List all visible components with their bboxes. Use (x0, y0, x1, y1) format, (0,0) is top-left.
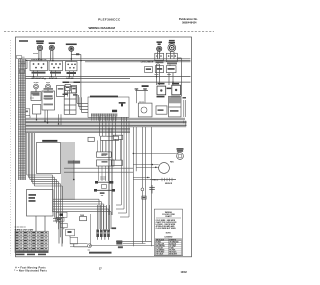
svg-text:GN GREEN: GN GREEN (156, 250, 164, 252)
small fuse component bottom left (80, 215, 87, 221)
junction dot (73, 179, 75, 181)
latch harness vertical wires (116, 121, 129, 217)
wire label smudge (68, 161, 81, 164)
svg-text:BU BLUE: BU BLUE (169, 243, 176, 245)
svg-text:xx xxx xxxx xx: xx xxx xxxx xx (15, 227, 26, 229)
interlock plug P6 (box) (56, 218, 65, 221)
svg-text:SURFACE UNIT CHART: SURFACE UNIT CHART (15, 228, 35, 231)
interlock plug P9 (box) (70, 237, 77, 244)
power cord text marks (44, 88, 54, 99)
relay drop continuation wires (103, 139, 116, 160)
small junction box mid-left (88, 137, 94, 141)
thermal fuse (symbol) (150, 178, 176, 185)
clock motor (box) (157, 83, 166, 98)
connector pin label row (91, 113, 118, 120)
wire stub mid right (120, 139, 122, 160)
warmer element (circle) (168, 40, 176, 52)
surface switch S4 (box) (166, 53, 177, 64)
latch connector block (box) (88, 96, 129, 118)
bus N wire (19, 76, 191, 78)
relay feeder wires (98, 140, 109, 181)
svg-text:BW B-WHT: BW B-WHT (169, 254, 177, 256)
svg-text:PK PINK: PK PINK (169, 250, 176, 252)
svg-text:xx xx: xx xx (46, 82, 50, 84)
switch contact marks S2 (50, 72, 61, 74)
svg-text:xxx: xxx (88, 249, 91, 251)
svg-text:xx xx: xx xx (167, 74, 171, 76)
grounding component (dark box) (116, 240, 122, 244)
bend wires below door lock assy (36, 216, 62, 247)
relay module side wires (183, 97, 187, 117)
labels below small switches (63, 94, 78, 96)
noise filter (box) (57, 86, 65, 97)
bake relay (box) (97, 152, 112, 157)
surface unit chart (table) (15, 227, 49, 253)
svg-text:V VIOLET: V VIOLET (156, 248, 163, 250)
wire drop to motor (73, 160, 75, 180)
component drop wires into band (30, 110, 61, 125)
wire branch to harness (71, 53, 81, 97)
label between clock and lamp (167, 88, 172, 90)
door lock motor (box with circle) (138, 103, 152, 117)
switch bottom stubs (34, 62, 171, 76)
leads surface unit LF (157, 51, 159, 58)
riser wires column (27, 133, 35, 186)
thermal cutout component (142, 196, 146, 199)
svg-text:FUSE: FUSE (80, 215, 84, 217)
oven indicator light 2 (circle) (46, 82, 51, 89)
bottom left wires (70, 244, 154, 247)
oven selector switch (box) (66, 62, 78, 75)
power cord (box) (42, 89, 55, 110)
bottom bend wires (116, 191, 152, 244)
surface switch S2 (box) (49, 61, 63, 71)
wire harness band (19, 118, 187, 132)
svg-text:L1 N L2 BK W: L1 N L2 BK W (141, 62, 154, 64)
svg-text:WIRING DIAGRAM: WIRING DIAGRAM (89, 26, 116, 30)
band end ticks (184, 121, 186, 128)
legend panel (box) (154, 209, 182, 256)
band junction dots (36, 119, 60, 125)
junction dots right (133, 153, 157, 178)
EOC side wires (62, 142, 74, 200)
warmer switch (box) (155, 66, 163, 73)
circuit label circle (88, 244, 92, 252)
svg-text:OVEN SW: OVEN SW (66, 78, 74, 80)
surface unit LR (circle) (66, 44, 77, 52)
relay module inner mark (170, 110, 179, 112)
svg-text:LEGEND: LEGEND (164, 237, 173, 239)
TB terminal marks (32, 92, 40, 94)
broil relay (box) (97, 160, 115, 166)
stub wire 4 (82, 97, 89, 112)
svg-text:xx xx: xx xx (30, 98, 34, 100)
svg-text:CLOCK WIRE NUT USED.: CLOCK WIRE NUT USED. (156, 228, 177, 230)
door switch (box) (71, 86, 76, 93)
relay contact row (boxes) (101, 135, 123, 140)
bus L2b wire (85, 61, 191, 63)
door lock solenoid assembly (94, 177, 115, 197)
bus L3 wire (64, 81, 191, 83)
bundle tap box (22, 109, 30, 116)
nested bend wires (27, 175, 63, 244)
ground lug (box) (33, 105, 41, 115)
wire stubs right switches (157, 58, 182, 96)
surface switch S1 (box) (30, 58, 48, 70)
lead surface unit LR (70, 51, 72, 61)
stub wire 3 (80, 97, 88, 109)
table footer text row (16, 254, 47, 256)
relay board K1 (box) (64, 87, 76, 115)
svg-text:CHART: CHART (165, 215, 172, 218)
oven indicator light 1 (circle) (34, 82, 39, 89)
svg-text:10/02: 10/02 (181, 271, 188, 274)
svg-text:RB R-BLK: RB R-BLK (169, 252, 177, 254)
terminal block TB (box) (31, 89, 41, 101)
corner header text (19, 40, 28, 42)
surface unit RR (circle) (36, 40, 44, 50)
svg-text:xxx xx: xxx xx (139, 102, 144, 104)
convection fan motor (circle) (159, 161, 175, 174)
header publication number text (179, 17, 198, 24)
wire left drop to junction (90, 214, 92, 247)
wire to circuit circle (74, 246, 88, 248)
leads surface unit RR (39, 51, 41, 61)
svg-text:WR W-RED: WR W-RED (156, 252, 165, 254)
leads warmer element (170, 52, 174, 59)
connector P1 (pins) (96, 128, 116, 237)
warmer indicator (box) (166, 66, 176, 73)
svg-text:SENSOR: SENSOR (165, 183, 173, 185)
latch box bottom stubs (121, 117, 126, 121)
left riser bundle (hatched wires) (18, 59, 25, 180)
svg-text:5995449424: 5995449424 (182, 20, 197, 24)
svg-text:BR BROWN: BR BROWN (156, 246, 164, 248)
labels above small switches (63, 82, 81, 84)
diagram border frame (16, 37, 192, 257)
circuit label text (89, 252, 112, 254)
svg-text:xx xxx: xx xxx (33, 53, 38, 55)
svg-text:xx xxx: xx xxx (34, 82, 39, 84)
oven lamp assembly (box) (171, 83, 181, 98)
limiter lower box (20, 70, 25, 74)
thermostat switch (box) (145, 67, 153, 73)
capacitor symbol (149, 185, 155, 194)
bus junction dots (33, 58, 174, 83)
aux relay (box) (111, 160, 122, 166)
right wires to lamps (133, 152, 179, 179)
right drop wires (133, 127, 151, 246)
wire horizontal mid A (64, 167, 133, 169)
electronic oven control EOC (box) (37, 140, 61, 174)
svg-text:L1: L1 (23, 57, 25, 59)
terminal L1 label (17, 56, 25, 60)
limiter inner mark (20, 63, 26, 65)
oven relay module (box) (169, 96, 182, 117)
jumper plug symbols (135, 85, 149, 103)
wire horizontal mid B (64, 171, 133, 173)
svg-text:PLEF398CCC: PLEF398CCC (98, 17, 121, 21)
interlock plug P8 (box) (66, 229, 75, 236)
svg-text:xxx xxx: xxx xxx (100, 177, 106, 179)
bus L1 wire (19, 58, 191, 60)
surface unit RF (circle) (49, 42, 55, 50)
oven door lock assembly (box) (27, 190, 54, 217)
interlock plug P7 (box) (61, 223, 68, 227)
svg-text:RIGHT SW: RIGHT SW (49, 78, 57, 80)
thermal limiter TL1 (box) (19, 60, 27, 68)
leads surface unit RF (51, 50, 53, 61)
plug chain wires (60, 217, 74, 246)
oven light switch (box) (65, 84, 70, 90)
svg-text:* = Non-Illustrated Parts: * = Non-Illustrated Parts (14, 270, 47, 273)
dark component 2 bottom (118, 246, 123, 248)
small switch inner marks (66, 87, 76, 90)
stub wire 2 (79, 95, 89, 106)
svg-text:xx xxxx: xx xxxx (100, 179, 106, 181)
relay inner smudges (102, 153, 108, 162)
oven light (double circle) (177, 148, 184, 159)
bus L2 wire (19, 60, 191, 62)
lock cam inner mark (158, 109, 164, 111)
footer legend text (14, 266, 47, 272)
stub wire 1 (77, 95, 88, 103)
small switch drop wire (67, 91, 69, 97)
harness drop wires to relays (100, 117, 116, 137)
interlock plug P5 (box) (56, 212, 67, 217)
svg-text:W WHITE: W WHITE (169, 239, 176, 241)
lock cam switch (box) (156, 106, 167, 114)
fold dashed line (4, 31, 214, 33)
svg-text:xxx: xxx (101, 195, 104, 197)
svg-text:Y YELLOW: Y YELLOW (156, 243, 164, 245)
bus N2 wire (19, 78, 130, 80)
svg-text:xx xx: xx xx (155, 74, 159, 76)
surface unit LF (circle) (157, 41, 163, 51)
switch contact marks S1 (32, 72, 46, 74)
surface switch S3 (box) (155, 53, 164, 63)
svg-text:NOTE:: NOTE: (166, 232, 172, 234)
svg-text:LEFT FRONT SW: LEFT FRONT SW (31, 78, 44, 80)
wires lock to connector (53, 199, 111, 229)
pin tails (98, 237, 109, 240)
svg-text:YB Y-BLK: YB Y-BLK (156, 254, 164, 256)
small terminal circle (141, 188, 144, 191)
page edge dotted line (10, 40, 12, 256)
svg-text:TOD xx: TOD xx (152, 179, 158, 181)
